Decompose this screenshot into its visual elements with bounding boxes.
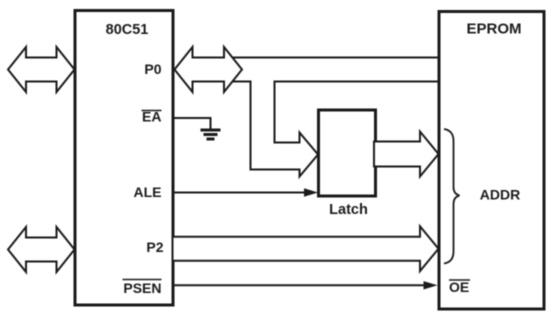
overline EA (142, 110, 162, 112)
wire ALE to Latch (174, 192, 306, 194)
arrowhead ALE (304, 188, 318, 196)
wire data bus bottom with branch to Latch (hollow bent arrow into Latch) (233, 82, 438, 177)
svg-text:ADDR: ADDR (480, 187, 520, 203)
overline OE (449, 279, 470, 281)
wire EA to ground (174, 118, 211, 129)
svg-text:ALE: ALE (134, 184, 162, 200)
block EPROM (memory U2) (439, 12, 544, 310)
block Latch (address latch U3) (319, 110, 376, 196)
wire PSEN to OE (174, 284, 425, 286)
svg-text:EPROM: EPROM (466, 21, 521, 38)
bus arrow bidirectional P0 to data bus (175, 47, 243, 92)
svg-text:OE: OE (449, 279, 469, 295)
svg-text:PSEN: PSEN (123, 280, 161, 296)
overline PSEN (123, 279, 162, 281)
ground (201, 129, 221, 141)
bus arrow bidirectional left of 80C51 (P2 external bus) (8, 227, 75, 272)
brace ADDR group (444, 129, 460, 264)
bus arrow Latch output to EPROM ADDR (374, 132, 439, 177)
wire data bus top (P0 to EPROM) (233, 57, 438, 59)
svg-text:P0: P0 (144, 61, 161, 77)
svg-text:Latch: Latch (329, 202, 368, 218)
bus arrow P2 to EPROM ADDR (173, 226, 439, 271)
arrowhead PSEN (424, 281, 438, 289)
block 80C51 (microcontroller U1) (75, 11, 173, 306)
bus arrow bidirectional left of 80C51 (P0 external bus) (8, 47, 75, 92)
svg-text:P2: P2 (146, 239, 163, 255)
svg-text:80C51: 80C51 (106, 22, 149, 38)
